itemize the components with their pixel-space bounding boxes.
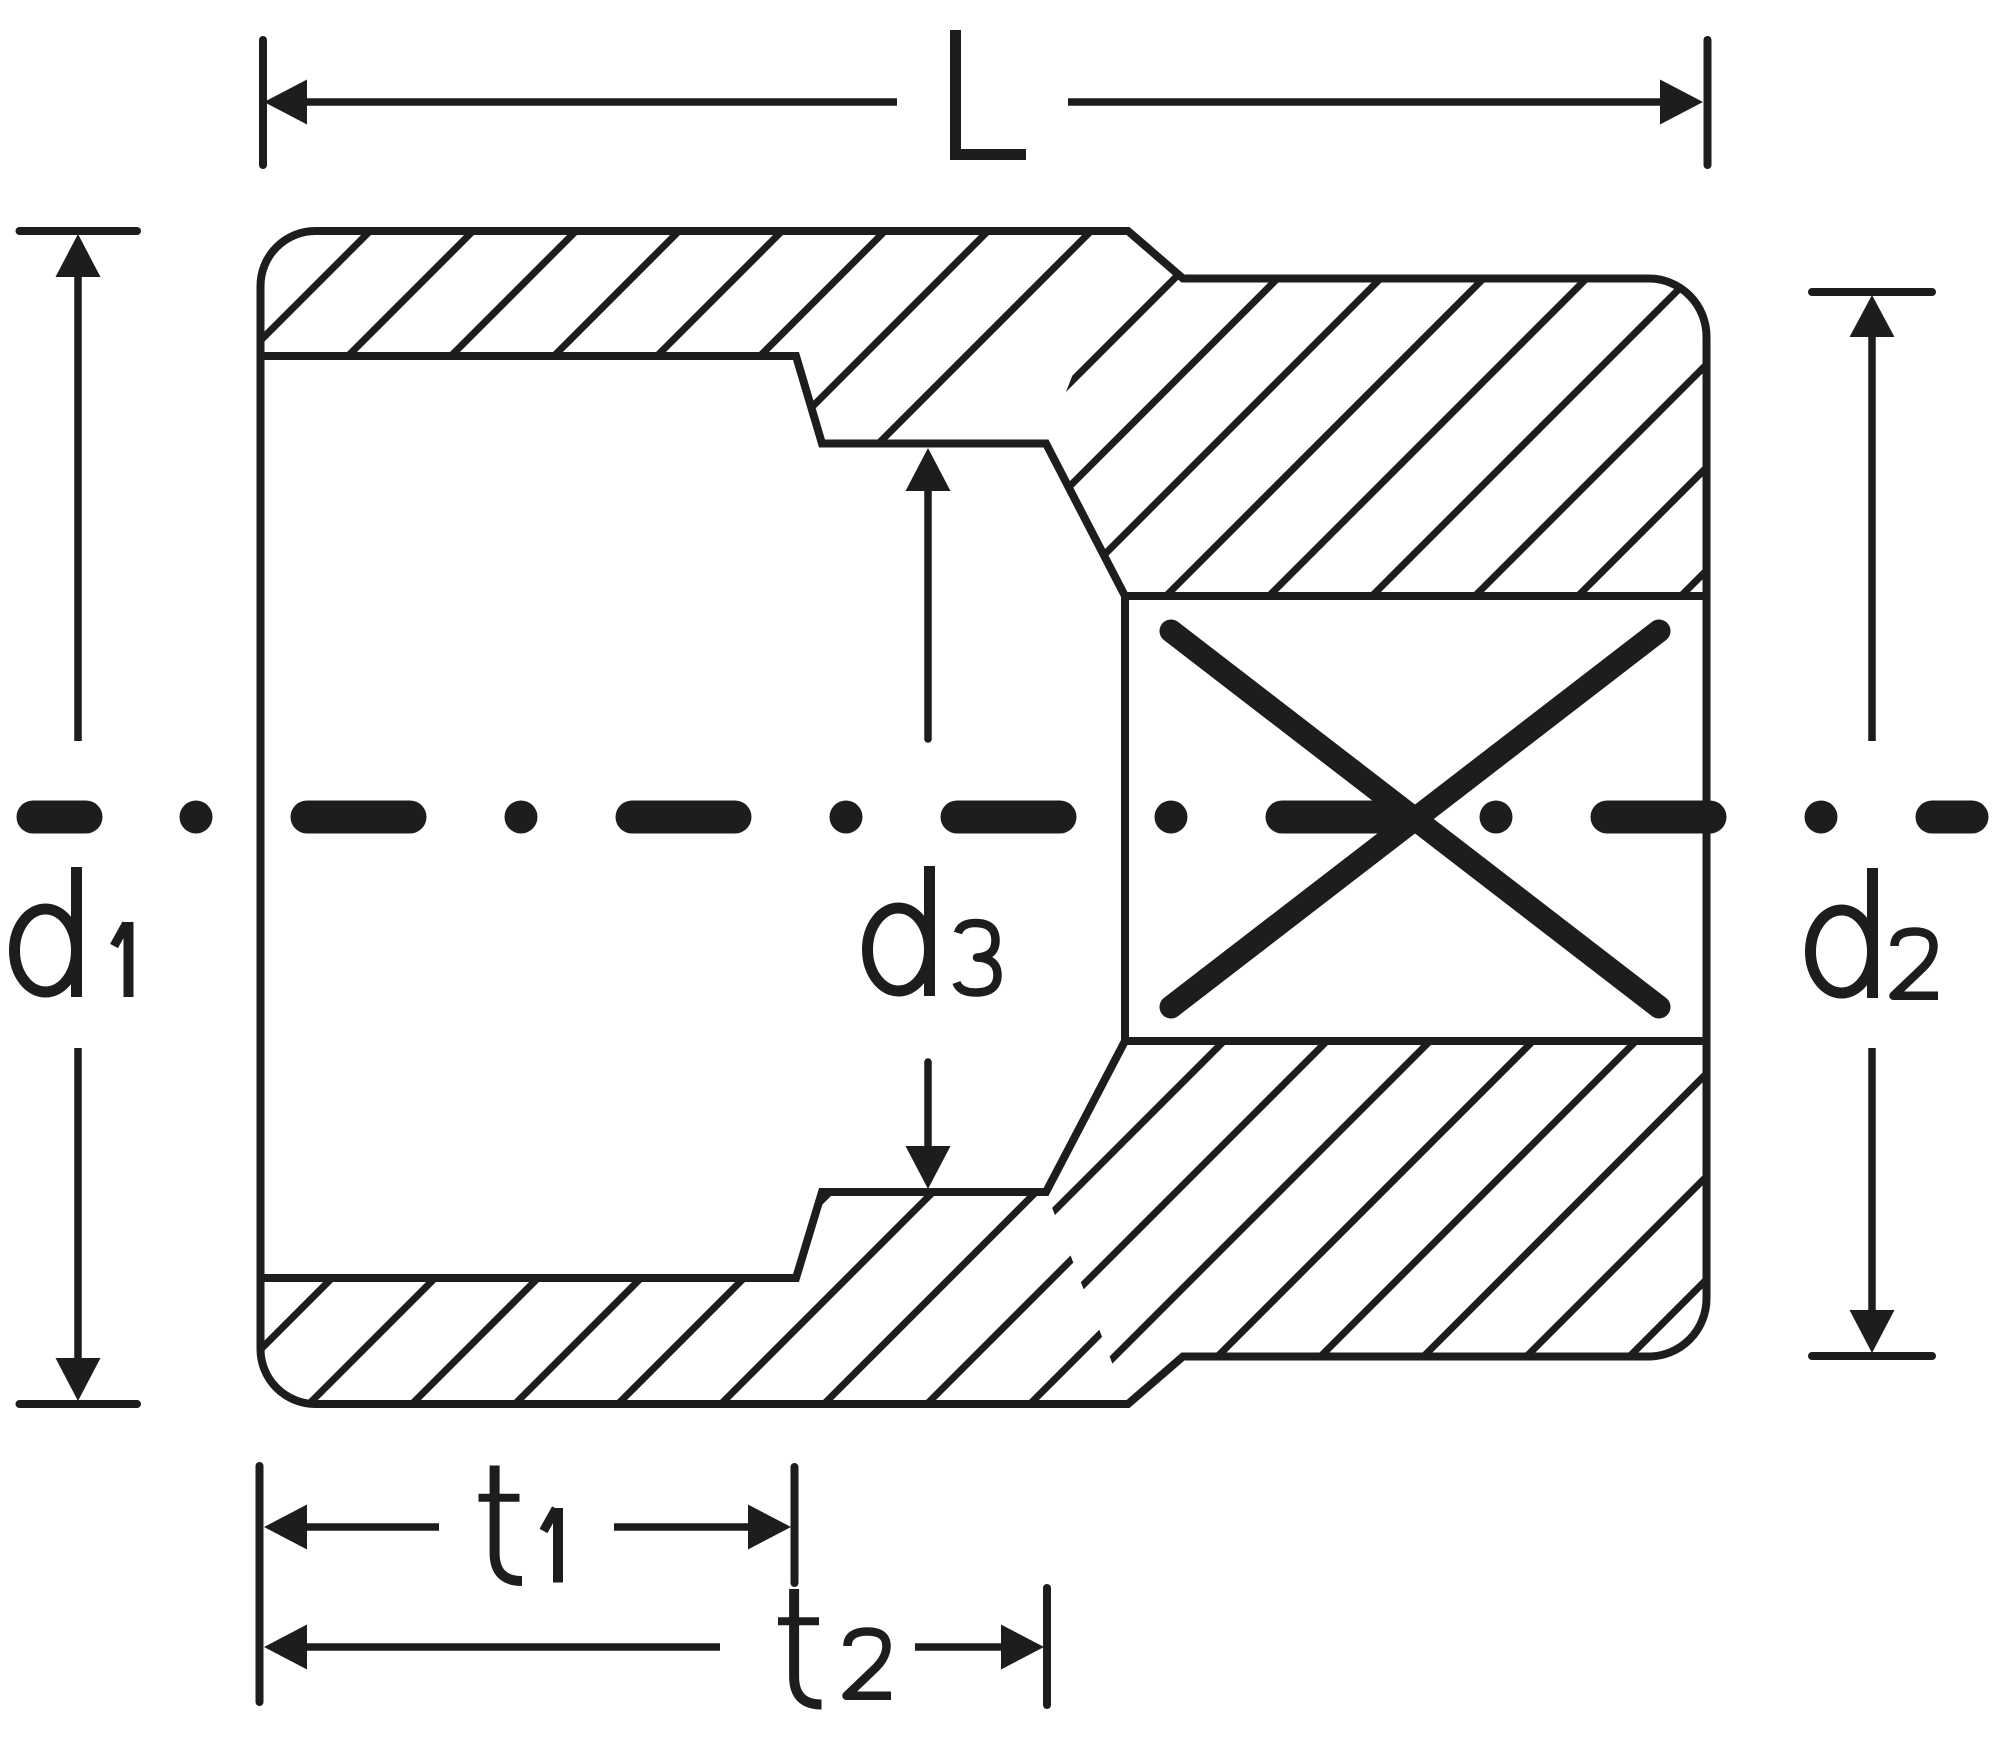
dimension t1/t2 shared left extension tick (256, 1466, 264, 1702)
dimension d3 bottom arrowhead (906, 1146, 951, 1189)
label d3 (868, 866, 998, 996)
dimension t1 left arrowhead (264, 1505, 307, 1550)
dimension d3 top arrowhead (906, 448, 951, 491)
dimension t2 right extension tick (1043, 1588, 1051, 1705)
socket body outer outline (261, 231, 1707, 1404)
X cross marking the square drive opening (1171, 631, 1659, 1007)
dimension t1 lines (307, 1523, 748, 1531)
dimension t2 right arrowhead (1001, 1625, 1044, 1670)
label d2 (1811, 868, 1939, 998)
dimension L left arrowhead (264, 80, 307, 125)
dimension t1 right extension tick (791, 1467, 799, 1583)
dimension L right arrowhead (1660, 80, 1703, 125)
label t2 (778, 1589, 891, 1705)
dimension L lines (307, 98, 1663, 106)
dimension d1 lines (74, 277, 82, 1358)
dimension t2 left arrowhead (264, 1625, 307, 1670)
dimension d2 lines (1868, 337, 1876, 1310)
label L (956, 30, 1027, 155)
dimension t2 lines (307, 1643, 1001, 1651)
dimension d1 extension ticks (20, 231, 138, 1404)
label d1 (15, 867, 129, 997)
dimension d2 extension ticks (1812, 292, 1932, 1356)
dimension d2 top arrowhead (1850, 295, 1895, 337)
inner cavity outline: hex opening, d3 bore cone and square drive hole (261, 356, 1707, 1278)
dimension t1 right arrowhead (748, 1505, 791, 1550)
dimension d3 lines (924, 491, 932, 1146)
dimension d1 bottom arrowhead (56, 1358, 101, 1401)
dimension L extension ticks (263, 40, 1708, 165)
dimension d2 bottom arrowhead (1850, 1310, 1895, 1353)
label t1 (479, 1466, 559, 1583)
dimension d1 top arrowhead (56, 234, 101, 277)
center line (dash-dot axis) (33, 801, 1972, 834)
